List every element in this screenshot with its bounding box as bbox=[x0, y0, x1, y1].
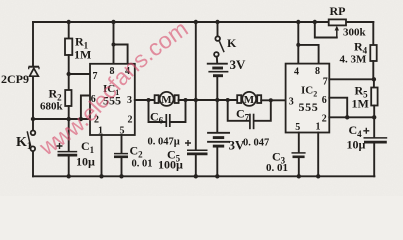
wire pin6 step IC2 bbox=[329, 98, 347, 118]
node K1-pin2row bbox=[31, 117, 35, 121]
svg-text:2CP9: 2CP9 bbox=[1, 72, 29, 86]
wire pin6 stub and tie bbox=[81, 96, 90, 120]
node C7 loop left bbox=[226, 98, 230, 102]
svg-text:6: 6 bbox=[322, 95, 327, 106]
switch K1 bbox=[27, 131, 35, 152]
wire pin3 row to motor M1 bbox=[135, 99, 155, 101]
wire left vertical mid (diode to K1) bbox=[32, 77, 34, 131]
wire M1 right to junction bbox=[179, 99, 196, 101]
svg-text:0. 01: 0. 01 bbox=[132, 159, 153, 170]
wire IC2 pin1 lead bbox=[317, 133, 319, 177]
node C2-ground bbox=[119, 174, 123, 178]
node pin1-ground bbox=[99, 174, 103, 178]
node rail-riser2 bbox=[296, 20, 300, 24]
svg-text:RP: RP bbox=[330, 4, 346, 18]
svg-text:4: 4 bbox=[294, 67, 299, 78]
node tie-pin2row bbox=[79, 117, 83, 121]
node battery-motor row bbox=[215, 98, 219, 102]
node mid-motor row bbox=[194, 98, 198, 102]
node pin7-R4-R5 bbox=[372, 77, 376, 81]
wire pin7 row IC2 bbox=[329, 78, 374, 80]
capacitor C3 bbox=[292, 133, 306, 177]
svg-text:3: 3 bbox=[127, 95, 132, 106]
resistor R1 bbox=[65, 22, 72, 74]
diode 2CP9 bbox=[29, 67, 40, 77]
node rail-wiper bbox=[313, 20, 317, 24]
wire pin2 row bbox=[33, 118, 90, 120]
wire top rail left segment bbox=[33, 21, 329, 23]
node rail-riser bbox=[111, 20, 115, 24]
svg-text:0. 047µ: 0. 047µ bbox=[148, 137, 180, 148]
switch K bbox=[214, 22, 224, 63]
node pin6-pin2 bbox=[345, 115, 349, 119]
capacitor C2 bbox=[114, 135, 128, 176]
svg-text:7: 7 bbox=[323, 77, 328, 88]
node C6 loop left bbox=[147, 98, 151, 102]
pin labels IC2 bbox=[289, 66, 328, 133]
svg-text:0. 047: 0. 047 bbox=[243, 138, 269, 149]
node C1-ground bbox=[67, 174, 71, 178]
wire pin7 row bbox=[69, 73, 90, 75]
svg-text:100µ: 100µ bbox=[158, 158, 183, 172]
wire mid column rail to motor row bbox=[195, 22, 197, 100]
node C7 loop right bbox=[269, 98, 273, 102]
wire pin2 row IC2 bbox=[329, 116, 374, 118]
svg-text:M: M bbox=[161, 94, 172, 106]
node rail-K bbox=[215, 20, 219, 24]
pin labels IC1 bbox=[91, 66, 133, 137]
svg-text:3: 3 bbox=[289, 97, 294, 108]
wire M2 right to IC2 pin3 bbox=[261, 99, 285, 101]
wire IC1 supply riser bbox=[113, 22, 115, 45]
svg-text:8: 8 bbox=[315, 66, 320, 77]
svg-text:1M: 1M bbox=[74, 48, 91, 62]
svg-text:M: M bbox=[244, 94, 255, 106]
wire left vertical upper (rail to diode) bbox=[32, 22, 34, 66]
wire pin1 lead to ground bbox=[101, 135, 103, 176]
svg-text:10µ: 10µ bbox=[76, 155, 95, 169]
motor M2 bbox=[237, 92, 261, 106]
node pin1-ground IC2 bbox=[316, 174, 320, 178]
potentiometer RP bbox=[315, 19, 346, 37]
node R1-R2-pin7 bbox=[67, 72, 71, 76]
wire bottom rail bbox=[33, 175, 374, 177]
capacitor C5 bbox=[185, 100, 208, 176]
svg-text:1M: 1M bbox=[352, 97, 369, 111]
node rail-mid bbox=[194, 20, 198, 24]
svg-text:0. 01: 0. 01 bbox=[266, 162, 288, 174]
svg-text:2: 2 bbox=[128, 115, 133, 126]
node pin2-R5-C4 bbox=[372, 115, 376, 119]
svg-text:K: K bbox=[227, 36, 237, 50]
resistor R2 bbox=[65, 74, 71, 119]
node rail-R1 bbox=[67, 20, 71, 24]
capacitor C1 bbox=[57, 119, 78, 176]
svg-text:300k: 300k bbox=[343, 27, 367, 39]
node bracket2 bbox=[296, 43, 300, 47]
resistor R4 bbox=[370, 45, 376, 79]
wire pin8-pin4 bracket bbox=[114, 45, 128, 64]
svg-text:5: 5 bbox=[295, 122, 300, 133]
battery B2 3V bbox=[207, 100, 230, 176]
battery B1 3V bbox=[207, 64, 229, 100]
svg-text:2: 2 bbox=[322, 114, 327, 125]
wire right drop from rail to R4 bbox=[372, 22, 374, 45]
svg-text:10µ: 10µ bbox=[347, 138, 366, 152]
wire top rail right segment bbox=[346, 21, 373, 23]
node R2-pin2row bbox=[67, 117, 71, 121]
node C5-ground bbox=[194, 174, 198, 178]
svg-text:555: 555 bbox=[299, 100, 319, 114]
svg-text:3V: 3V bbox=[230, 57, 247, 72]
svg-text:4. 3M: 4. 3M bbox=[340, 54, 368, 66]
wire motor row M1 junction to battery column bbox=[196, 99, 237, 101]
op-amp U1 IC1 555 box bbox=[90, 64, 135, 135]
node C6 loop right bbox=[184, 98, 188, 102]
svg-text:1: 1 bbox=[316, 122, 321, 133]
node battery2-ground bbox=[215, 174, 219, 178]
wire left vertical lower (K1 to bottom rail) bbox=[32, 151, 34, 176]
capacitor C4 bbox=[363, 117, 387, 176]
watermark bbox=[46, 26, 200, 156]
resistor R5 bbox=[371, 79, 377, 117]
motor M1 bbox=[155, 92, 179, 106]
capacitor C6 loop bbox=[149, 100, 186, 127]
node C3-ground bbox=[297, 174, 301, 178]
wire pin4-pin8 bracket IC2 bbox=[298, 45, 318, 64]
capacitor C7 loop bbox=[228, 100, 271, 129]
node bracket bbox=[112, 43, 116, 47]
svg-text:680k: 680k bbox=[40, 101, 64, 113]
op-amp U2 IC2 555 box bbox=[286, 64, 330, 133]
svg-text:7: 7 bbox=[93, 71, 98, 82]
wire IC2 supply riser bbox=[297, 22, 299, 45]
